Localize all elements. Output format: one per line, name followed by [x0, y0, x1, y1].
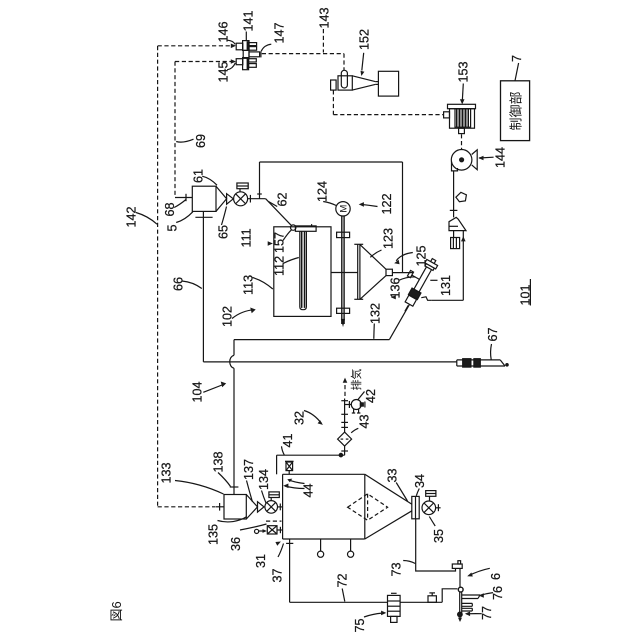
svg-text:62: 62: [276, 192, 290, 206]
svg-text:102: 102: [221, 306, 235, 327]
svg-text:69: 69: [194, 134, 208, 148]
svg-text:5: 5: [166, 224, 180, 231]
svg-text:141: 141: [242, 10, 256, 31]
svg-text:制御部: 制御部: [509, 91, 524, 130]
svg-text:136: 136: [389, 277, 403, 298]
svg-text:112: 112: [273, 256, 287, 276]
svg-text:42: 42: [364, 389, 378, 403]
svg-text:7: 7: [510, 55, 524, 62]
svg-text:142: 142: [125, 206, 139, 227]
svg-text:排気: 排気: [349, 369, 363, 391]
svg-text:152: 152: [358, 29, 372, 50]
svg-text:132: 132: [369, 303, 383, 324]
svg-text:76: 76: [491, 586, 505, 600]
svg-text:125: 125: [415, 245, 429, 266]
svg-text:113: 113: [242, 275, 256, 295]
svg-text:37: 37: [271, 568, 285, 582]
svg-text:145: 145: [217, 61, 231, 82]
svg-text:44: 44: [302, 483, 316, 497]
svg-text:M: M: [338, 205, 349, 213]
svg-text:41: 41: [281, 433, 295, 447]
svg-text:77: 77: [480, 606, 494, 620]
svg-text:34: 34: [413, 474, 427, 488]
svg-text:137: 137: [242, 459, 256, 480]
svg-text:68: 68: [163, 202, 177, 216]
svg-text:134: 134: [257, 469, 271, 490]
svg-text:73: 73: [390, 562, 404, 576]
svg-text:135: 135: [207, 524, 221, 545]
svg-text:66: 66: [172, 277, 186, 291]
svg-text:35: 35: [432, 529, 446, 543]
svg-text:72: 72: [336, 573, 350, 587]
svg-text:36: 36: [229, 537, 243, 551]
svg-text:75: 75: [353, 618, 367, 632]
svg-text:157: 157: [273, 232, 287, 253]
svg-text:図6: 図6: [109, 601, 124, 621]
svg-text:122: 122: [380, 193, 394, 214]
svg-text:147: 147: [273, 22, 287, 43]
svg-text:146: 146: [217, 21, 231, 42]
svg-text:32: 32: [293, 411, 307, 425]
svg-text:143: 143: [318, 7, 332, 28]
svg-text:65: 65: [217, 225, 231, 239]
svg-text:138: 138: [212, 451, 226, 472]
svg-text:131: 131: [439, 275, 453, 296]
svg-text:133: 133: [160, 462, 174, 483]
svg-text:61: 61: [192, 169, 206, 183]
svg-text:101: 101: [519, 284, 533, 305]
svg-text:111: 111: [240, 228, 254, 247]
svg-text:33: 33: [386, 468, 400, 482]
svg-text:124: 124: [316, 181, 330, 202]
svg-text:67: 67: [486, 327, 500, 341]
svg-text:104: 104: [191, 381, 205, 402]
svg-text:43: 43: [358, 414, 372, 428]
svg-text:144: 144: [494, 147, 508, 168]
svg-text:153: 153: [457, 61, 471, 82]
svg-text:123: 123: [382, 228, 396, 249]
svg-text:6: 6: [489, 573, 503, 580]
svg-text:31: 31: [254, 554, 268, 568]
